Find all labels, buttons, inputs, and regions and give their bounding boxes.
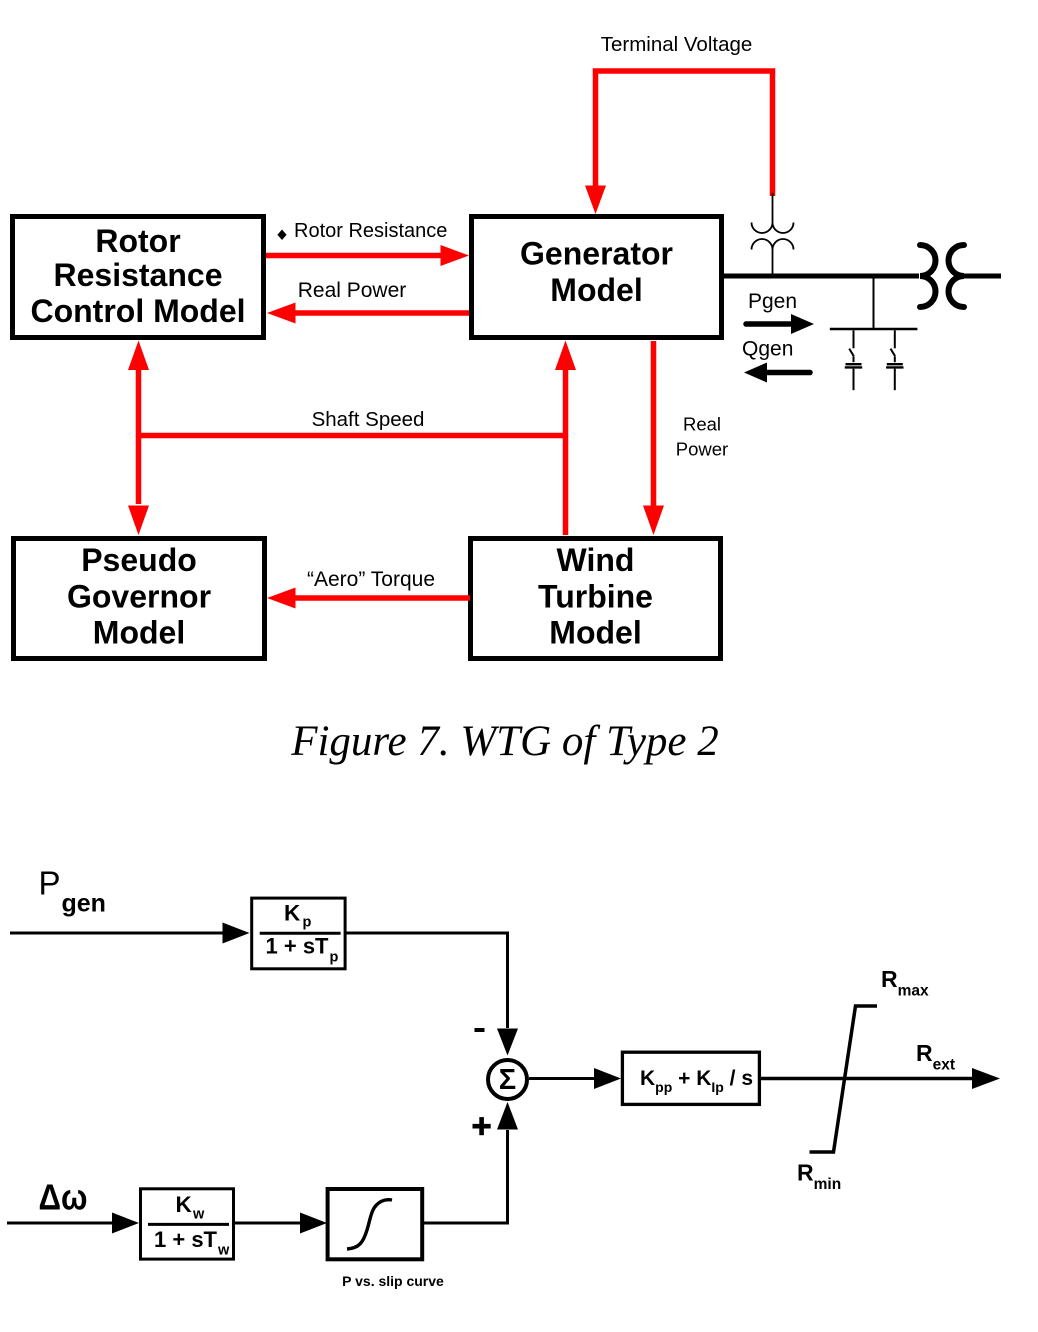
label: Rotor Resistance with diamond bullet [277, 220, 447, 242]
svg-text:P vs. slip curve: P vs. slip curve [342, 1273, 444, 1289]
svg-text:p: p [330, 950, 339, 966]
svg-text:Pseudo: Pseudo [81, 542, 197, 578]
svg-text:Generator: Generator [520, 236, 673, 272]
wire: real power arrow (Generator -> RRC) [267, 303, 469, 324]
wire: delta omega input line [7, 1213, 139, 1234]
wire: bus after transformer [964, 274, 1001, 279]
svg-text:Turbine: Turbine [538, 579, 653, 615]
transformer winding right [948, 245, 964, 307]
arrow: Qgen (left) [744, 363, 810, 383]
svg-text:Figure 7. WTG of Type 2: Figure 7. WTG of Type 2 [290, 718, 719, 765]
svg-text:Shaft Speed: Shaft Speed [312, 408, 425, 431]
arrow: Pgen (right) [746, 314, 814, 334]
capacitor bank feeder [830, 279, 918, 330]
svg-text:K: K [176, 1192, 193, 1217]
svg-text:Wind: Wind [557, 542, 635, 578]
svg-text:Model: Model [93, 615, 185, 651]
svg-text:1 + sT: 1 + sT [266, 934, 329, 959]
svg-text:w: w [192, 1207, 205, 1223]
svg-text:Δω: Δω [39, 1177, 88, 1218]
block: Wind Turbine Model [471, 539, 721, 659]
wire: shaft speed horizontal [139, 433, 566, 439]
svg-text:p: p [303, 915, 312, 931]
wire: Kw to slip curve block [234, 1213, 328, 1234]
capacitor branch 2 [886, 330, 903, 390]
svg-text:Σ: Σ [499, 1064, 516, 1096]
svg-text:Power: Power [676, 439, 728, 460]
svg-text:Control Model: Control Model [30, 293, 245, 329]
block: Kpp + KIp / s [622, 1052, 759, 1104]
block: Kw / (1+sTw) [141, 1189, 234, 1259]
wire: summer to PI block [529, 1068, 621, 1089]
wire: rotor resistance arrow (RRC -> Generator) [266, 245, 469, 266]
svg-text:Pgen: Pgen [748, 290, 797, 313]
svg-text:Terminal Voltage: Terminal Voltage [601, 33, 753, 56]
svg-text:Resistance: Resistance [54, 257, 223, 293]
svg-text:Rotor Resistance: Rotor Resistance [294, 220, 447, 242]
wire: shaft speed vertical (RRC <-> Pseudo Governor) [128, 341, 149, 536]
transformer winding left [920, 245, 935, 307]
block: P vs slip curve [328, 1189, 423, 1259]
label: plus sign [473, 1117, 491, 1135]
label: Real Power (right, two lines) [676, 414, 728, 460]
capacitor branch 1 [845, 330, 862, 390]
limiter symbol [810, 1006, 878, 1152]
wire: Kp output to summer [346, 933, 519, 1056]
svg-text:Real Power: Real Power [298, 279, 407, 302]
wire: Pgen input line [10, 923, 250, 944]
block: Pseudo Governor Model [14, 539, 265, 659]
wire: wind turbine -> generator (shaft speed up arrow) [555, 341, 576, 536]
block: Rotor Resistance Control Model [13, 217, 264, 338]
wire: slip curve output to summer [422, 1102, 518, 1223]
svg-text:Model: Model [549, 615, 641, 651]
wire: real power (Generator -> Wind Turbine) [643, 341, 664, 535]
wire: aero torque (Wind Turbine -> Pseudo Governor) [267, 588, 470, 609]
potential transformer (voltage tap) [752, 193, 794, 274]
block: Generator Model [472, 217, 722, 338]
svg-text:Model: Model [550, 272, 642, 308]
wire: terminal voltage feedback [585, 71, 773, 214]
svg-text:Governor: Governor [67, 579, 211, 615]
svg-text:Real: Real [683, 414, 721, 435]
svg-text:Rotor: Rotor [95, 223, 180, 259]
label: Pgen input [39, 865, 106, 918]
summer circle [488, 1060, 527, 1099]
svg-text:1 + sT: 1 + sT [154, 1227, 217, 1252]
label: minus sign [475, 1028, 485, 1032]
wire: generator output bus [724, 274, 919, 279]
block: Kp / (1+sTp) [252, 898, 345, 969]
svg-text:P: P [39, 865, 61, 902]
svg-text:“Aero” Torque: “Aero” Torque [307, 568, 435, 591]
svg-text:K: K [284, 901, 301, 926]
svg-text:gen: gen [62, 890, 106, 918]
wire: PI output / Rext arrow [761, 1068, 1000, 1089]
svg-text:w: w [217, 1243, 230, 1259]
svg-text:Qgen: Qgen [742, 338, 793, 361]
